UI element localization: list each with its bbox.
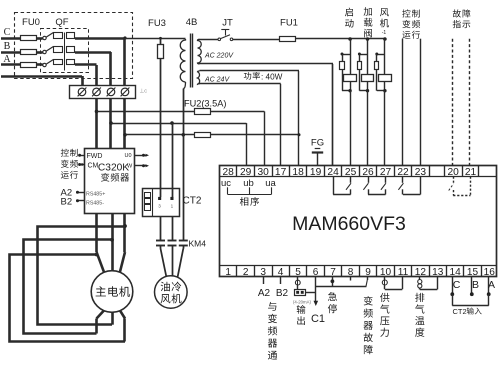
svg-text:(4-20mA): (4-20mA) <box>293 299 311 304</box>
svg-text:14: 14 <box>449 267 461 278</box>
svg-text:29: 29 <box>240 167 252 178</box>
svg-text:26: 26 <box>362 167 374 178</box>
svg-text:ua: ua <box>265 178 276 189</box>
svg-text:CT2: CT2 <box>453 307 467 316</box>
svg-text:30: 30 <box>258 167 270 178</box>
svg-text:1: 1 <box>225 267 231 278</box>
svg-text:4: 4 <box>278 267 284 278</box>
svg-text:28: 28 <box>223 167 235 178</box>
svg-text:W: W <box>127 164 133 170</box>
svg-text:FWD: FWD <box>87 153 103 160</box>
svg-text:2: 2 <box>243 267 249 278</box>
svg-text:B: B <box>472 279 479 291</box>
svg-text:5: 5 <box>295 267 301 278</box>
svg-text:18: 18 <box>292 167 304 178</box>
svg-text:9: 9 <box>365 267 371 278</box>
svg-text:B2: B2 <box>61 197 73 208</box>
svg-text:25: 25 <box>345 167 357 178</box>
svg-text:FU3: FU3 <box>148 18 166 29</box>
svg-text:JT: JT <box>222 18 233 29</box>
svg-text:A2: A2 <box>258 288 271 299</box>
svg-text:20: 20 <box>448 167 460 178</box>
svg-text:B: B <box>4 41 11 52</box>
svg-text:RS485-: RS485- <box>86 201 104 207</box>
svg-text:FU0: FU0 <box>22 17 40 28</box>
svg-text:⊥c: ⊥c <box>140 87 148 94</box>
svg-text:uc: uc <box>221 178 231 189</box>
svg-text:AC 220V: AC 220V <box>204 53 234 60</box>
svg-text:AC 24V: AC 24V <box>204 77 230 84</box>
svg-text:MAM660VF3: MAM660VF3 <box>292 213 406 235</box>
svg-text:C1: C1 <box>311 313 325 325</box>
svg-text:13: 13 <box>432 267 444 278</box>
svg-text:8: 8 <box>348 267 354 278</box>
svg-text:19: 19 <box>310 167 322 178</box>
svg-text:C: C <box>4 27 11 38</box>
svg-text:-1: -1 <box>382 30 387 36</box>
svg-text:FG: FG <box>311 138 324 149</box>
svg-text:ub: ub <box>243 178 254 189</box>
svg-text:U0: U0 <box>125 153 132 159</box>
svg-text:KM4: KM4 <box>189 239 207 249</box>
svg-text:16: 16 <box>484 267 496 278</box>
svg-text:FU1: FU1 <box>280 18 298 29</box>
svg-text:21: 21 <box>465 167 477 178</box>
svg-text:A: A <box>488 279 495 291</box>
svg-text:QF: QF <box>55 17 68 28</box>
svg-text:6: 6 <box>313 267 319 278</box>
svg-text:27: 27 <box>380 167 392 178</box>
svg-text:24: 24 <box>327 167 339 178</box>
svg-text:23: 23 <box>415 167 427 178</box>
svg-text:22: 22 <box>397 167 409 178</box>
svg-text:11: 11 <box>398 267 409 278</box>
svg-text:15: 15 <box>467 267 479 278</box>
svg-text:C: C <box>453 279 461 291</box>
svg-text:12: 12 <box>415 267 427 278</box>
svg-text:B2: B2 <box>276 288 289 299</box>
svg-text:: 40W: : 40W <box>261 73 283 82</box>
svg-text:FU2(3.5A): FU2(3.5A) <box>184 99 226 109</box>
svg-text:4B: 4B <box>186 17 198 28</box>
svg-text:RS485+: RS485+ <box>86 192 105 198</box>
svg-text:10: 10 <box>380 267 392 278</box>
svg-text:17: 17 <box>275 167 287 178</box>
svg-text:CM: CM <box>88 162 99 169</box>
svg-text:CT2: CT2 <box>183 196 202 207</box>
svg-text:C320K: C320K <box>98 163 129 174</box>
svg-text:3: 3 <box>260 267 266 278</box>
svg-text:7: 7 <box>330 267 336 278</box>
